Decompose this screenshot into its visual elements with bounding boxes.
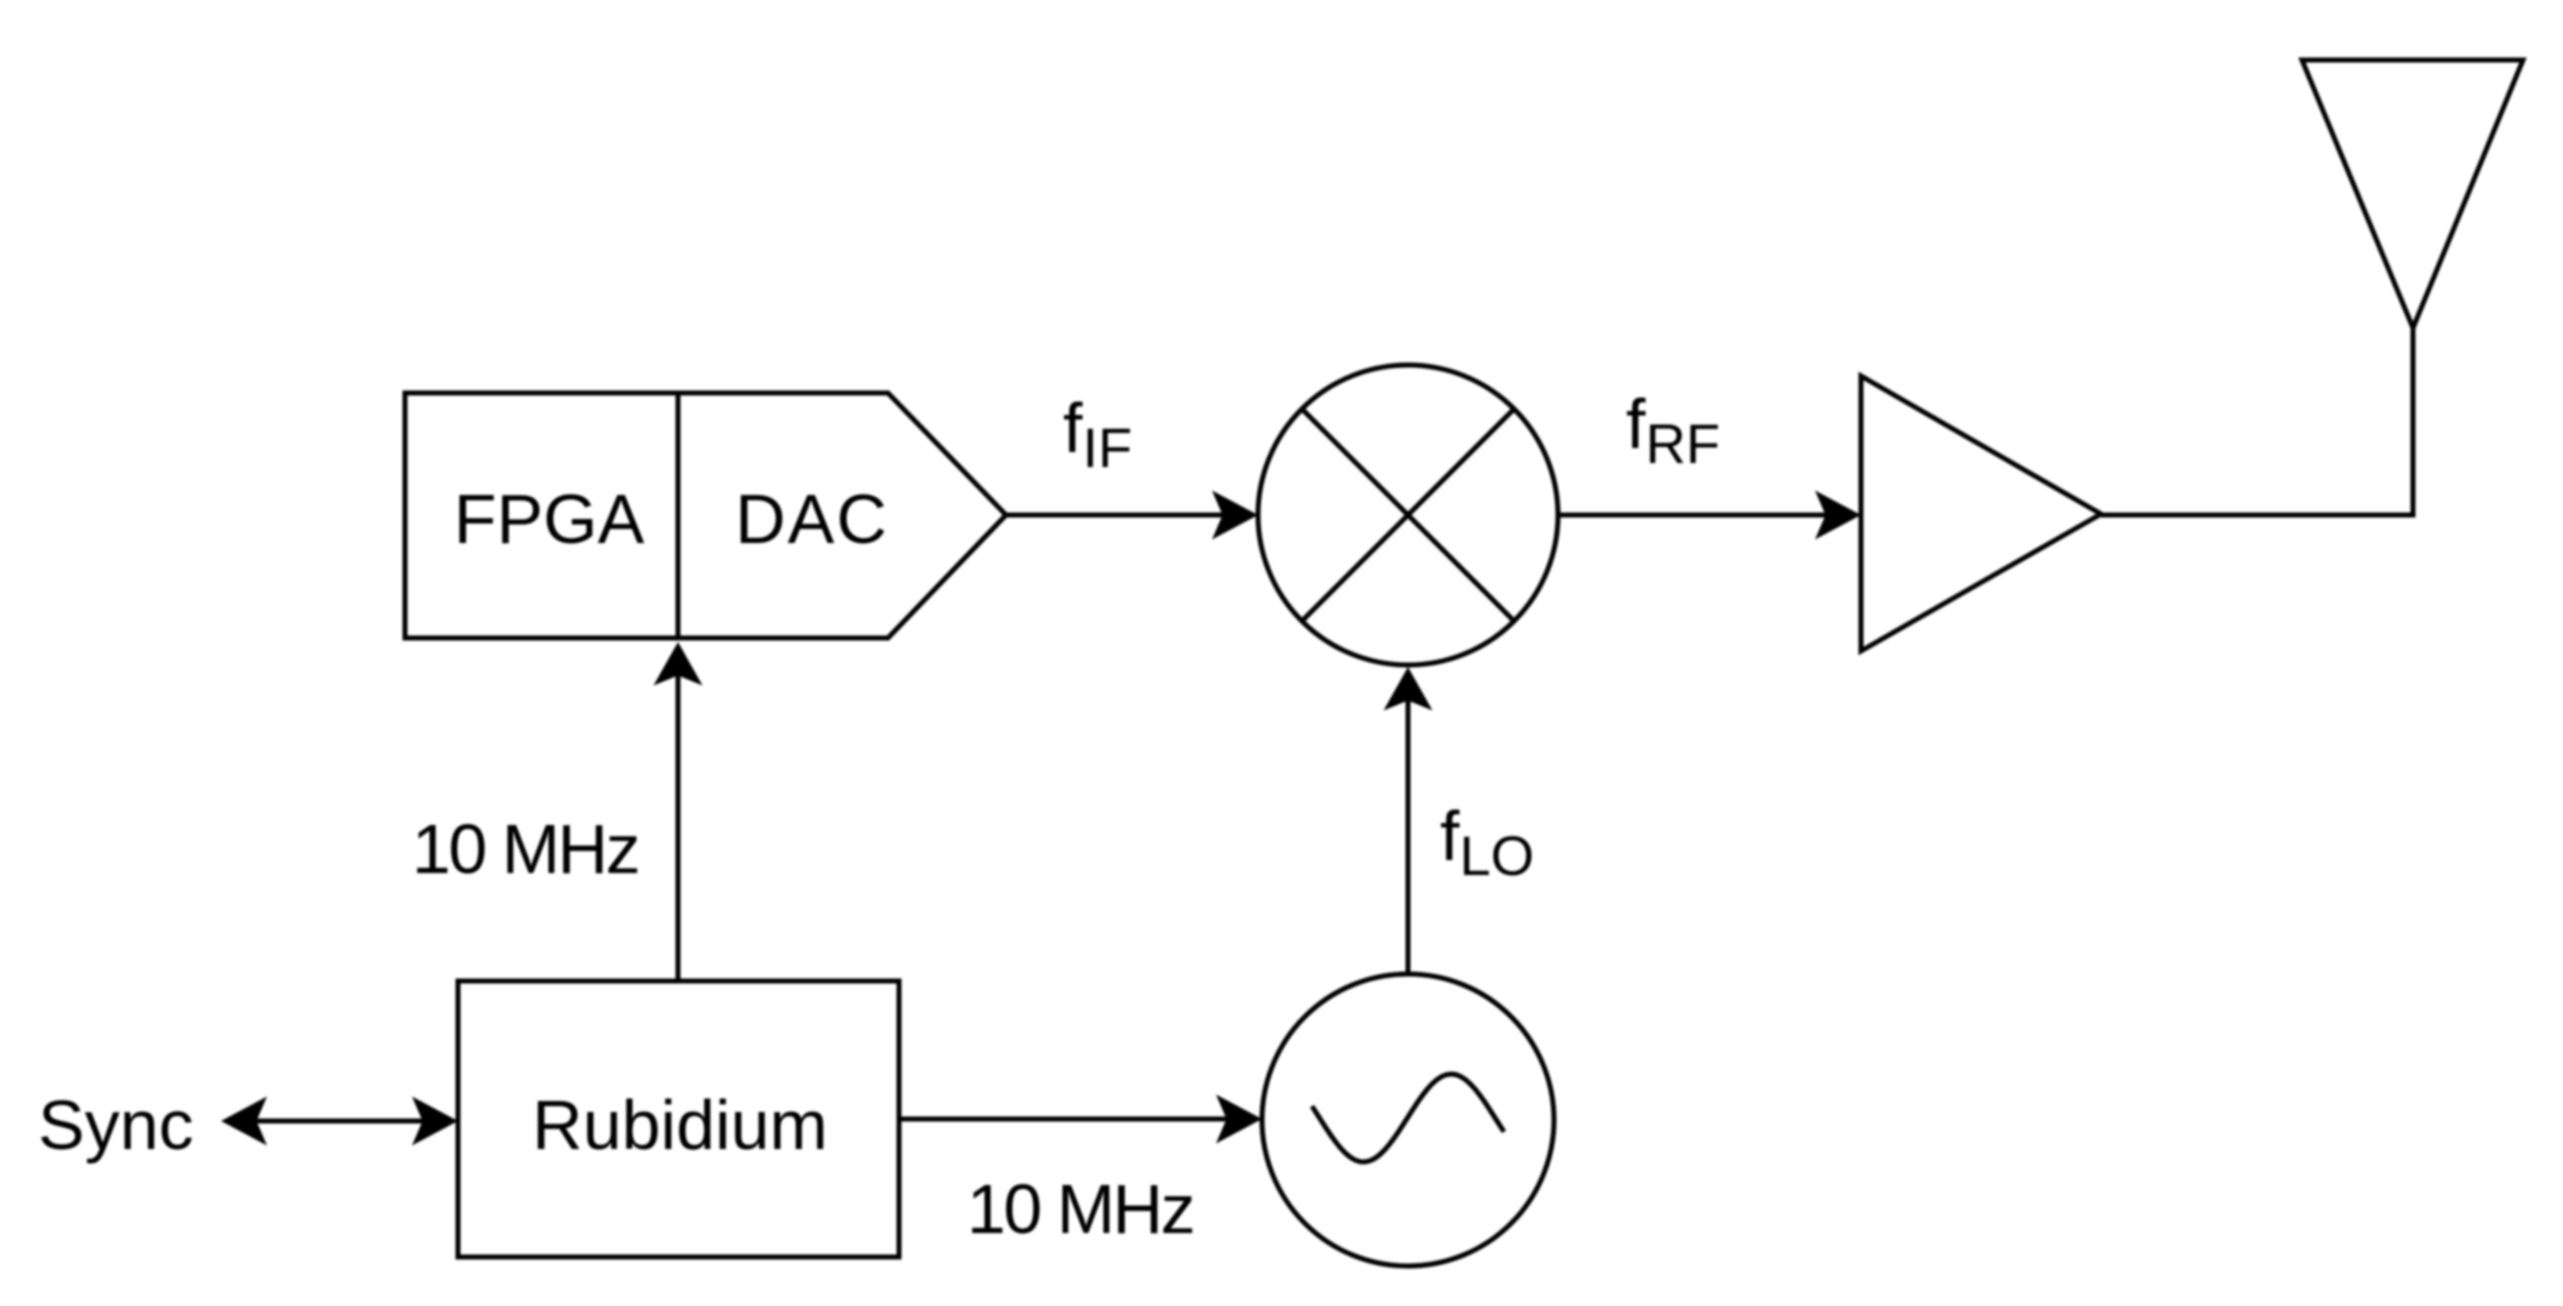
svg-text:10 MHz: 10 MHz bbox=[967, 1170, 1193, 1248]
svg-text:FPGA: FPGA bbox=[454, 480, 645, 558]
svg-text:Sync: Sync bbox=[38, 1086, 194, 1164]
svg-text:10 MHz: 10 MHz bbox=[412, 810, 638, 888]
svg-text:DAC: DAC bbox=[735, 480, 889, 558]
svg-text:Rubidium: Rubidium bbox=[532, 1086, 828, 1164]
